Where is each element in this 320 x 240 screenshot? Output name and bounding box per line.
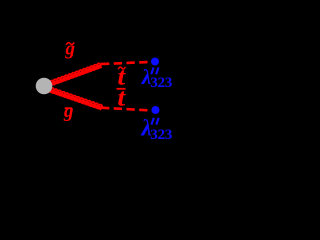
svg-text:323: 323 — [150, 74, 173, 91]
wire: lower gluino coil — [49, 88, 102, 110]
wire: upper gluino coil — [50, 63, 102, 85]
svg-text:g: g — [64, 38, 75, 59]
svg-text:g: g — [63, 101, 74, 122]
svg-text:323: 323 — [150, 126, 173, 143]
label: gluino (tilde g) top — [66, 42, 74, 44]
label: anti-stop (bar t) bottom — [117, 88, 126, 90]
label: anti-gluino (bar g) bottom — [65, 107, 72, 109]
wire: upper gluino straight fermion line — [50, 65, 101, 84]
svg-text:t: t — [117, 83, 126, 111]
label: stop (tilde t) top — [118, 67, 125, 69]
wire: lower gluino straight fermion line — [50, 90, 102, 108]
node: upper RPV vertex dot — [151, 58, 159, 66]
node: lower RPV vertex dot — [152, 106, 160, 114]
wire: upper dashed stop line — [101, 62, 148, 64]
wire: lower dashed stop line — [101, 108, 149, 111]
node: production blob — [36, 78, 53, 95]
